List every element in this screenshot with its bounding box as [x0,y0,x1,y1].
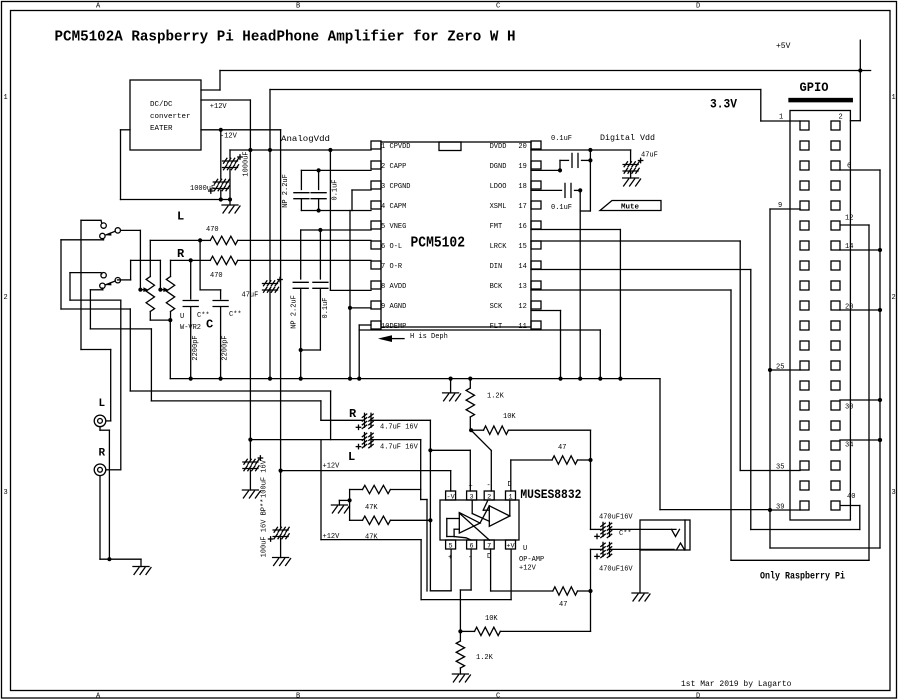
jack R sleeve wire [99,477,101,560]
svg-text:NP 2.2uF: NP 2.2uF [282,174,290,208]
ground symbol 100uF upper [242,489,258,491]
GPIO pin 5 pad [800,161,809,170]
junction +12V line [279,469,283,473]
svg-text:U: U [180,313,184,321]
junction -12V at 1000uF [219,128,223,132]
resistor 47 upper [510,460,512,491]
svg-text:1: 1 [381,143,385,151]
switch SW2 lever [106,281,115,285]
svg-text:C: C [496,3,500,11]
junction L line [248,438,252,442]
svg-text:2: 2 [839,114,843,122]
resistor 470 lower [210,256,237,264]
pin 8 stub AVDD [371,281,381,289]
GPIO pin 6 pad [831,161,840,170]
svg-text:1000uF: 1000uF [190,185,215,193]
GPIO pin 37 pad [800,481,809,490]
svg-text:47: 47 [559,601,567,609]
svg-text:VNEG: VNEG [390,223,407,231]
svg-text:C: C [206,318,213,332]
switch SW2 contacts [101,273,106,278]
potentiometer VR right [166,277,174,312]
op-amp triangle B [459,513,480,534]
+12V output wire [201,99,250,101]
upper decoupling pair feed [329,150,331,290]
headphone jack [640,520,690,550]
svg-text:47K: 47K [365,534,378,542]
AnalogVdd rail x=281 [280,130,282,471]
svg-text:470: 470 [210,272,223,280]
wire L-channel crossover [130,390,330,392]
resistor 47K upper [350,489,363,491]
wire 470 to O-L pin [238,239,371,241]
GPIO pin 40 pad [831,501,840,510]
svg-text:LRCK: LRCK [490,243,508,251]
svg-text:AVDD: AVDD [390,283,407,291]
capacitor 100uF 16V upper [249,440,251,459]
svg-text:-V: -V [447,493,456,501]
wire pin7 output [490,549,492,591]
jack L RCA [94,415,106,427]
svg-text:3: 3 [892,489,896,497]
wire SW1 top [81,219,101,221]
GPIO pin 18 pad [831,281,840,290]
resistor 470 upper [200,239,210,241]
GPIO pin 10 pad [831,201,840,210]
resistor 1.2K lower [459,631,461,641]
junction O-R [189,258,193,262]
pin 20 stub DVDD [531,141,541,149]
svg-text:H is Deph: H is Deph [410,333,448,341]
junction bottom rail [317,208,321,212]
pin 17 stub XSML [531,201,541,209]
GPIO pin 33 pad [800,441,809,450]
GPIO pin 14 pad [831,241,840,250]
svg-text:C**: C** [229,311,242,319]
svg-text:10K: 10K [485,615,498,623]
svg-text:R: R [99,448,106,460]
potentiometer VR left [146,277,154,312]
pin 12 stub SCK [531,301,541,309]
pin 10 stub DEMP [371,321,381,329]
svg-text:1: 1 [892,94,896,102]
svg-text:47: 47 [558,444,566,452]
svg-text:Digital Vdd: Digital Vdd [600,133,655,143]
resistor 10K upper [471,429,483,431]
ground symbol jack [632,592,648,594]
op-amp internal wires [471,500,473,513]
pin 15 stub LRCK [531,241,541,249]
svg-text:2: 2 [381,163,385,171]
svg-text:+12V: +12V [210,103,228,111]
GPIO pin 19 pad [800,301,809,310]
svg-text:9: 9 [381,303,385,311]
svg-text:1: 1 [4,94,8,102]
-12V output wire [201,129,281,131]
wire R net to pin5 [430,590,451,592]
wire cap drop [589,150,591,211]
pin 9 stub AGND [371,301,381,309]
svg-text:-: - [487,482,491,490]
wire AGND [350,307,371,309]
ground symbol below 1000uF [229,200,231,206]
wire pot bottoms [150,319,170,321]
wire LDOO [531,189,562,191]
pin 4 stub CAPM [371,201,381,209]
wire +12V wrap [320,440,322,540]
capacitor 100uF 16V lower [280,471,282,527]
ground symbol 47uF [623,177,639,179]
wire LDOO cap to bus [579,190,581,378]
svg-text:47uF: 47uF [242,292,259,300]
svg-text:PCM5102A Raspberry Pi HeadPhon: PCM5102A Raspberry Pi HeadPhone Amplifie… [55,29,516,46]
Mute flag [600,201,661,211]
ground symbol op-amp upper [450,379,452,393]
svg-text:17: 17 [518,203,526,211]
junction +5V [858,68,862,72]
AnalogVdd feed wire y150 [230,149,371,151]
svg-text:D: D [696,3,700,11]
junction LDOO cap [578,188,582,192]
GPIO connector body [790,111,850,521]
AGND rail [349,211,351,379]
svg-text:+5V: +5V [776,42,791,51]
GPIO notch bar [789,99,852,102]
wire 10K lower up [590,591,592,631]
left column A [80,220,82,349]
resistor 47K lower [350,519,363,521]
svg-text:4.7uF 16V: 4.7uF 16V [380,444,419,452]
wire pot bottom to bus [169,320,171,379]
wire to R jack [70,299,121,301]
junction top rail [317,168,321,172]
svg-text:+: + [469,483,473,491]
svg-text:30: 30 [845,404,853,412]
svg-text:1: 1 [508,493,512,501]
capacitor 0.1uF upper [318,170,320,189]
switch SW1 lever [106,231,115,235]
GPIO pin 13 pad [800,241,809,250]
svg-text:4: 4 [381,203,385,211]
svg-text:6: 6 [847,163,851,171]
wire CPGND jog [352,189,371,191]
GPIO pin 30 pad [831,401,840,410]
svg-text:CAPP: CAPP [390,163,407,171]
svg-text:100uF 16V BP**: 100uF 16V BP** [261,499,269,558]
wire R source crossover [90,328,151,330]
GPIO pin 38 pad [831,481,840,490]
pin 2 stub CAPP [371,161,381,169]
capacitor 0.1uF lower [313,281,328,283]
svg-text:3: 3 [470,493,474,501]
jack sleeve ground [639,550,641,593]
svg-text:DGND: DGND [490,163,507,171]
ground return loop of DC/DC [121,129,131,131]
svg-text:3: 3 [381,183,385,191]
svg-text:0.1uF: 0.1uF [332,179,340,200]
wire bus to GPIO grounds [659,379,661,510]
junction cap2 bottom [219,197,223,201]
svg-text:470uF16V: 470uF16V [599,566,633,574]
GPIO pin 2 pad [831,121,840,130]
svg-text:D: D [696,693,700,700]
svg-text:1000uF: 1000uF [243,151,251,176]
pin 3 stub CPGND [371,181,381,189]
svg-text:35: 35 [776,464,784,472]
ground symbol jacks [133,566,149,568]
svg-text:U: U [523,545,527,553]
GPIO pin 28 pad [831,381,840,390]
svg-text:DC/DC: DC/DC [150,101,173,109]
svg-text:FMT: FMT [490,223,503,231]
svg-text:47K: 47K [365,504,378,512]
wire AVDD [330,289,371,291]
svg-text:0.1uF: 0.1uF [551,204,572,212]
svg-text:7: 7 [381,263,385,271]
GPIO pin 32 pad [831,421,840,430]
wire R select [131,259,161,261]
wire SW1 lever to volume [121,229,141,231]
ground symbol 1.2K [452,673,468,675]
GPIO pin 35 pad [800,461,809,470]
GPIO pin 15 pad [800,261,809,270]
junction 47 lower [588,589,592,593]
svg-text:2: 2 [892,294,896,302]
wire +12V opamp [281,470,451,472]
ground symbol bias [331,504,347,506]
svg-text:47uF: 47uF [641,152,658,160]
wire DGND [531,169,560,171]
switch SW1 contacts [101,223,106,228]
wire bias ground [339,499,349,501]
svg-text:4.7uF 16V: 4.7uF 16V [380,424,419,432]
wire FLT DEMP tie [359,329,600,331]
svg-text:1st Mar 2019 by Lagarto: 1st Mar 2019 by Lagarto [681,680,792,689]
svg-text:O-R: O-R [390,263,403,271]
junction O-L [198,238,202,242]
pin 16 stub FMT [531,221,541,229]
capacitor 0.1uF LDOO [564,183,566,197]
jack R RCA [94,464,106,476]
svg-text:+12V: +12V [323,533,341,541]
junction pot bottom [168,318,172,322]
op-amp triangle A [489,506,510,527]
svg-text:6: 6 [381,243,385,251]
svg-text:BCK: BCK [490,283,503,291]
wire L cap net [420,440,422,500]
svg-text:2200pF: 2200pF [192,335,200,360]
pin 14 stub DIN [531,261,541,269]
capacitor 2200pF left [190,260,192,299]
+5V riser to GPIO pin 2 [859,40,861,121]
wire pin6 to feedback [470,549,472,590]
svg-text:LDOO: LDOO [490,183,507,191]
wire LRCK [531,240,740,242]
op-amp pin 3 top [467,491,477,500]
junction DGND [558,168,562,172]
capacitor NP 2.2uF upper [300,170,302,189]
GPIO pin 23 pad [800,341,809,350]
svg-text:1.2K: 1.2K [487,393,505,401]
junction avdd col [328,148,332,152]
wire lower caps bottom [301,349,321,351]
capacitor 470uF16V upper [590,460,592,529]
GPIO pin 20 pad [831,301,840,310]
ground symbol 100uF lower [273,557,289,559]
svg-text:L: L [348,450,355,464]
wire 470 to O-R pin [191,259,211,261]
GPIO pin 3 pad [800,141,809,150]
svg-text:R: R [177,247,185,261]
wire DIN [531,269,751,271]
capacitor 2200pF right [199,240,201,290]
svg-text:12: 12 [845,215,853,223]
svg-text:+12V: +12V [323,463,341,471]
svg-text:-12V: -12V [220,133,238,141]
DC/DC converter EATER block [130,80,201,150]
IC notch [439,142,461,151]
GPIO pin 39 pad [800,501,809,510]
capacitor 47uF analog (x=270) [269,90,271,282]
svg-text:40: 40 [847,493,855,501]
svg-text:DIN: DIN [490,263,503,271]
resistor 10K lower [460,630,474,632]
GPIO pin 29 pad [800,401,809,410]
svg-text:+12V: +12V [519,565,537,573]
op-amp pin 2 top [484,491,494,500]
svg-text:13: 13 [518,283,526,291]
GPIO pin 31 pad [800,421,809,430]
svg-text:19: 19 [518,163,526,171]
capacitor 0.1uF DVDD [560,159,569,161]
wire SW2 bottom [101,288,104,290]
+5V wire from DC/DC to GPIO pin2 [201,89,220,91]
resistor 47 lower [553,587,578,595]
svg-text:L: L [177,210,184,224]
wire SW1 bottom to L net [102,239,105,240]
wire SW2 top [70,272,101,274]
capacitor 1000uF lower (x=221) [220,130,222,179]
svg-text:SCK: SCK [490,303,503,311]
potentiometer wiper left [138,288,142,292]
H is Deph arrow [378,335,392,342]
op-amp PCM5102 IC body [381,142,531,327]
svg-text:NP 2.2uF: NP 2.2uF [291,295,299,329]
svg-text:2: 2 [487,493,491,501]
wire to L jack [81,349,111,351]
junction VNEG takeoff [318,228,322,232]
wire FMT [531,229,620,231]
wire bottom rail caps CAPM [301,210,371,212]
pin 5 stub VNEG [371,221,381,229]
svg-text:0.1uF: 0.1uF [322,297,330,318]
junction cap right [588,158,592,162]
wire pin3 input [430,449,470,451]
svg-text:1: 1 [779,114,783,122]
svg-text:470: 470 [206,226,219,234]
left column C [69,273,71,301]
svg-text:2: 2 [4,294,8,302]
GPIO pin 36 pad [831,461,840,470]
svg-text:1.2K: 1.2K [476,654,494,662]
svg-text:EATER: EATER [150,125,173,133]
junction jack grounds [107,557,111,561]
wire pin2 input diagonal [471,430,491,450]
GPIO pin 9 pad [800,201,809,210]
svg-text:B: B [296,693,300,700]
capacitor 1000uF upper (x=230) [229,150,231,158]
junction 47uF col [268,148,272,152]
junction R net pin3 [428,448,432,452]
+12V rail vertical [249,100,251,440]
jack R tip wire [106,469,119,471]
svg-text:5: 5 [381,223,385,231]
svg-text:100uF 16V: 100uF 16V [261,459,269,498]
GPIO pin 25 pad [800,361,809,370]
junction 10K lower [458,629,462,633]
wire R pot to resistor [171,259,191,261]
capacitor 470uF16V lower [591,548,602,550]
svg-text:18: 18 [518,183,526,191]
GPIO pin 24 pad [831,341,840,350]
wire 47K bias [349,490,351,521]
junction 12V rail x feed [248,148,252,152]
junction DVDD [588,148,592,152]
svg-text:Only Raspberry Pi: Only Raspberry Pi [760,571,845,583]
wire top rail caps [301,169,371,171]
GPIO pin 21 pad [800,321,809,330]
pin 1 stub CPVDD [371,141,381,149]
op-amp pin +V bottom [506,540,516,549]
wire SCK [531,310,561,312]
pin 11 stub FLT [531,321,541,329]
junction AGND [348,306,352,310]
GPIO ground rail right [840,169,880,171]
svg-text:PCM5102: PCM5102 [411,235,466,252]
GPIO pin 27 pad [800,381,809,390]
svg-text:AnalogVdd: AnalogVdd [281,134,330,144]
GPIO pin 12 pad [831,221,840,230]
svg-text:20: 20 [518,143,526,151]
svg-text:8: 8 [381,283,385,291]
GPIO pin 4 pad [831,141,840,150]
svg-text:+V: +V [506,542,515,550]
svg-text:0.1uF: 0.1uF [551,135,572,143]
svg-text:15: 15 [518,243,526,251]
wire L pot to resistor [150,239,200,241]
svg-text:OP-AMP: OP-AMP [519,556,544,564]
capacitor 4.7uF L [250,439,362,441]
capacitor 47uF digital [630,150,632,162]
svg-text:MUSES8832: MUSES8832 [520,487,581,502]
GPIO ground rail left [770,208,800,210]
svg-text:converter: converter [150,113,191,121]
GPIO pin 11 pad [800,221,809,230]
svg-text:10K: 10K [503,413,516,421]
op-amp U MUSES8832 body [440,500,519,540]
GPIO pin 8 pad [831,181,840,190]
3.3V wire to GPIO pin1 [270,89,761,91]
resistor 1.2K upper [469,379,471,388]
svg-text:3: 3 [4,489,8,497]
GPIO ground wrap [770,547,880,549]
svg-text:AGND: AGND [390,303,407,311]
wire R wiper feed [159,260,161,289]
svg-text:5: 5 [449,542,453,550]
svg-text:C**: C** [619,530,632,538]
svg-text:CAPM: CAPM [390,203,407,211]
junction cap1 bottom [228,197,232,201]
